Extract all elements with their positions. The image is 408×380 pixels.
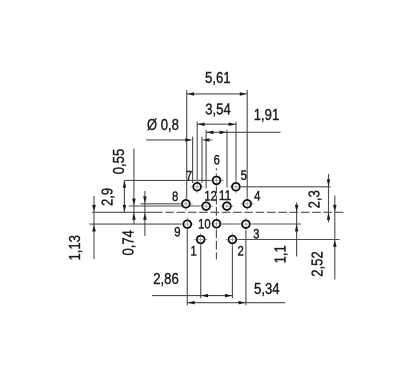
svg-text:2,86: 2,86 [153, 271, 179, 288]
svg-text:2,3: 2,3 [307, 190, 324, 208]
svg-text:0,74: 0,74 [121, 230, 138, 256]
svg-text:12: 12 [204, 188, 217, 203]
svg-text:2: 2 [237, 244, 243, 259]
svg-text:1,1: 1,1 [273, 245, 290, 263]
svg-text:0,55: 0,55 [111, 149, 128, 175]
svg-text:1: 1 [190, 244, 196, 259]
svg-text:5: 5 [241, 168, 247, 183]
svg-text:2,9: 2,9 [100, 188, 117, 206]
svg-text:5,61: 5,61 [205, 70, 231, 87]
svg-text:7: 7 [186, 168, 192, 183]
svg-text:1,91: 1,91 [254, 107, 280, 124]
svg-text:3,54: 3,54 [205, 101, 231, 118]
svg-text:4: 4 [254, 188, 261, 203]
svg-text:6: 6 [214, 152, 220, 167]
svg-text:Ø 0,8: Ø 0,8 [147, 117, 179, 134]
svg-text:3: 3 [253, 226, 259, 241]
svg-text:11: 11 [219, 188, 232, 203]
svg-text:9: 9 [174, 224, 180, 239]
svg-text:1,13: 1,13 [67, 235, 84, 261]
svg-text:5,34: 5,34 [254, 281, 280, 298]
svg-text:2,52: 2,52 [309, 251, 326, 277]
svg-text:10: 10 [198, 217, 211, 232]
svg-text:8: 8 [172, 189, 178, 204]
